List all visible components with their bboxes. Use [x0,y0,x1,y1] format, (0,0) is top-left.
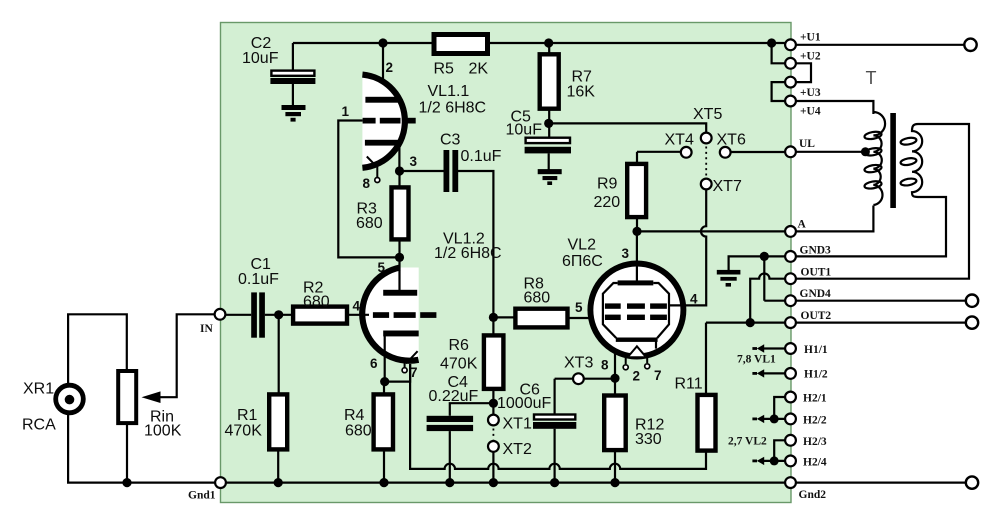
wire +U3 +U4 bracket inside [772,82,786,101]
ground below C2 [282,105,306,122]
svg-text:4: 4 [353,299,361,314]
svg-text:T: T [866,68,877,88]
terminal GND3 [785,251,796,262]
svg-text:R4: R4 [344,407,365,424]
VL1.1 grid pin 1 dashes [363,118,416,124]
VL1.2 heater stub pin 7 [402,351,418,373]
wire IN to pot wiper [159,314,215,397]
wire R8 to VL2 grid [568,317,593,319]
tube VL1.2 half triode envelope [362,268,418,361]
wire C3 right to R6 top node [458,171,494,317]
svg-text:H1/1: H1/1 [804,344,828,356]
heater arrow H1/2 [763,372,786,374]
terminal H2/1 [785,392,796,403]
terminal UL [785,146,796,157]
VL2 beam electrode outline [603,283,669,349]
terminal H2/3 [785,435,796,446]
wire +U1 external [796,44,965,46]
pot wiper arrow [142,391,161,403]
svg-text:R9: R9 [597,176,618,193]
wire top B+ bus y=43 [293,42,785,44]
svg-text:10uF: 10uF [242,50,279,67]
svg-text:1000uF: 1000uF [497,395,551,412]
wire VL1.2 cathode lead [384,335,386,382]
node 3 junction VL1.1 cathode [395,166,404,175]
wire R3 bottom [398,239,400,257]
terminal +U3 [785,77,796,88]
terminal XT7 [701,179,712,190]
node junction R1 on bus [274,478,283,487]
terminal H1/1 [785,343,796,354]
node junction top bus at +U2 branch [767,38,776,47]
svg-text:1/2 6H8C: 1/2 6H8C [419,100,487,117]
wire R11 top to OUT2 line [705,323,707,395]
wire OUT1 to secondary top [796,124,969,279]
wire node3 to C3 [400,170,444,172]
wire VL2 screen pin 4 to XT7 with hop over anode line [669,190,706,306]
wire C1 to R2 [265,314,293,316]
svg-text:4: 4 [690,292,698,307]
wire R6 leads [492,317,494,414]
wire H2/1 H2/2 bracket [763,397,786,419]
wire pot bottom lead [126,423,128,483]
wire R4 leads [383,382,385,483]
wire XR1 bottom to ground bus [68,413,215,483]
node junction R12 on bus [610,478,619,487]
VL2 cathode bar [616,338,658,342]
node junction C1/R1/R2 [274,310,283,319]
resistor R3 [356,187,409,239]
svg-text:0.22uF: 0.22uF [429,388,479,405]
svg-text:OUT2: OUT2 [801,310,832,322]
wire XT2 to bus [492,452,494,483]
svg-text:XR1: XR1 [23,381,54,398]
node junction top bus at VL1.1 [378,38,387,47]
svg-text:3: 3 [622,246,630,261]
wire ground bus [226,482,785,484]
svg-text:220: 220 [594,194,621,211]
VL1.1 cathode pin 3 [365,140,398,146]
wire R1 top lead [278,315,280,394]
wire VL2 pin8 lead [614,342,616,378]
VL1.2 anode pin 5 [383,290,417,296]
svg-text:6: 6 [370,356,378,371]
node junction pot bottom on ground bus [122,478,131,487]
VL1.2 grid pin 4 dashes [373,312,437,318]
svg-text:H2/1: H2/1 [803,393,827,405]
wire cathode node link right [385,364,410,382]
resistor R8 [515,276,567,328]
node junction VL2 anode / R9 [632,227,641,236]
wire R2 to VL1.2 grid [347,314,369,316]
node junction XT2 on bus [489,478,498,487]
wire C4 bottom lead [449,431,451,483]
wire +U4 to transformer primary [796,101,873,114]
svg-text:OUT1: OUT1 [801,267,832,279]
wire C5 bottom stem [548,153,550,169]
svg-text:VL1.1: VL1.1 [428,83,470,100]
node junction R3 bottom / VL1.2 anode [395,253,404,262]
svg-text:XT4: XT4 [665,132,694,149]
terminal GND4 [785,295,796,306]
wire GND4 external [796,300,966,302]
svg-text:VL2: VL2 [568,237,597,254]
wire VL1.2 anode lead [398,257,400,290]
svg-text:680: 680 [303,294,330,311]
svg-text:680: 680 [524,290,551,307]
wire XT4 to R9 [637,151,681,153]
VL2 cathode triangle [629,346,646,356]
VL2 grid dashes row 2 [605,315,667,320]
svg-text:IN: IN [200,323,213,335]
wire Gnd2 external [796,482,966,484]
svg-text:H2/4: H2/4 [803,457,827,469]
svg-text:2: 2 [633,369,641,384]
node junction C6 on bus [550,478,559,487]
terminal +U2 [785,58,796,69]
node junction OUT1/OUT2 [746,318,755,327]
wire UL to primary tap [796,151,865,153]
svg-text:3: 3 [410,154,418,169]
terminal XT5 [701,133,712,144]
svg-text:100K: 100K [144,423,182,440]
capacitor C1 [238,256,279,338]
terminal IN [215,309,226,320]
svg-text:GND3: GND3 [800,245,832,257]
wire VL2 anode lead pin 3 [636,231,638,281]
wire node to R8 [493,316,517,318]
svg-text:2K: 2K [469,61,489,78]
wire R11 bottom long feedback with hops [410,364,706,469]
wire node3 to R3 [398,171,400,187]
svg-text:10uF: 10uF [506,122,543,139]
svg-text:C3: C3 [440,132,461,149]
svg-text:7,8 VL1: 7,8 VL1 [737,354,776,366]
svg-text:2: 2 [386,60,394,75]
resistor R6 [440,335,503,389]
VL1.1 anode pin 2 [365,97,399,103]
resistor R12 [604,396,664,451]
wire XR1 top to potentiometer top [68,314,127,385]
svg-text:XT3: XT3 [564,355,593,372]
svg-text:5: 5 [378,260,386,275]
svg-text:2,7 VL2: 2,7 VL2 [728,435,767,447]
resistor R9 [594,164,647,217]
svg-text:R11: R11 [675,376,703,393]
VL1.2 cathode pin 6 [383,331,419,337]
terminal XT4 [681,147,692,158]
svg-text:GND4: GND4 [800,288,832,300]
svg-text:330: 330 [635,431,662,448]
capacitor C2 [242,35,315,84]
terminal A [785,226,796,237]
terminal XT6 [720,147,731,158]
terminal H2/4 [785,456,796,467]
svg-text:6П6С: 6П6С [562,253,603,270]
terminal XT3 [573,373,584,384]
svg-text:0.1uF: 0.1uF [461,148,502,165]
terminal XT1 [488,415,499,426]
wire R9 top lead [636,152,638,164]
svg-text:R5: R5 [434,61,455,78]
svg-text:8: 8 [363,176,371,191]
ground symbol near GND3 [717,270,741,287]
wire C4 top lead [450,403,494,416]
svg-text:Gnd2: Gnd2 [799,489,827,501]
wire anode line to terminal A [637,230,785,232]
svg-text:16K: 16K [567,84,596,101]
capacitor C5 [506,109,572,154]
terminal +U4 [785,96,796,107]
node junction GND3 [760,252,769,261]
wire C5 node to XT5 [549,123,707,132]
svg-text:+U2: +U2 [800,51,821,63]
terminal +U1 [785,39,796,50]
svg-text:+U4: +U4 [800,106,821,118]
svg-text:RCA: RCA [22,417,56,434]
wire VL1.1 plate lead [382,43,384,97]
wire VL1.1 grid feedback to R3 bottom [338,121,399,258]
capacitor C4 [427,374,479,431]
dotted link XT5 XT7 [705,147,707,177]
wire C2 stem [292,43,294,106]
svg-text:XT5: XT5 [693,106,722,123]
wire R9 bottom to anode node [636,215,638,231]
svg-text:680: 680 [345,423,372,440]
transformer T primary winding [864,112,885,205]
resistor R7 [540,54,596,108]
terminal OUT2 [785,317,796,328]
node junction R6 top / R8 [489,313,498,322]
wire GND3 to secondary bottom [796,197,946,256]
wire XT6 to UL terminal [731,151,786,153]
svg-text:0.1uF: 0.1uF [238,271,279,288]
node junction VL1.2 cathode [380,377,389,386]
wire H2/3 H2/4 bracket [763,440,786,461]
svg-text:H2/3: H2/3 [803,436,827,448]
external terminal +U1 [964,39,976,51]
node junction primary tap [861,147,870,156]
VL2 heater stub pin 7 [645,356,650,369]
svg-text:XT7: XT7 [713,178,742,195]
svg-text:8: 8 [601,358,609,373]
svg-text:+U3: +U3 [800,87,821,99]
wire IN to C1 [226,314,252,316]
dotted link XT1 XT2 [492,429,494,440]
svg-text:1: 1 [342,104,350,119]
wire OUT2 external [796,322,966,324]
svg-text:A: A [798,219,807,231]
wire +U2 +U3 outer bracket [796,63,811,82]
wire R7 leads [548,43,550,137]
node junction R6 bottom / C4 [489,399,498,408]
heater arrow H1/1 [763,347,786,349]
svg-text:1/2 6H8C: 1/2 6H8C [434,245,502,262]
svg-text:7: 7 [654,368,662,383]
transformer secondary winding [900,124,922,197]
resistor R11 [675,376,716,451]
terminal XT2 [488,441,499,452]
wire C6 leads [553,379,555,483]
svg-text:XT1: XT1 [503,416,532,433]
node junction top bus at R7 [544,38,553,47]
wire VL1.1 cathode lead [398,145,400,171]
potentiometer Rin body [118,371,181,440]
node junction VL2 cathode / R12 [610,374,619,383]
svg-text:R6: R6 [449,337,470,354]
terminal Gnd2 [785,477,796,488]
node junction R4 on bus [379,478,388,487]
connector XR1 RCA [22,381,83,434]
terminal Gnd1 [215,477,226,488]
terminal H2/2 [785,414,796,425]
wire XT3 link [555,378,615,380]
svg-text:470K: 470K [225,423,263,440]
svg-text:Gnd1: Gnd1 [188,490,216,502]
wire OUT1 with hop to OUT2 line [750,273,785,322]
op tube VL1.1 half triode envelope [362,75,404,168]
node junction R7 bottom / C5 [544,119,553,128]
resistor R5 [434,35,489,78]
node junction C4 on bus [445,478,454,487]
svg-text:XT2: XT2 [503,441,532,458]
capacitor C3 [440,132,502,193]
VL2 grid dashes row 1 [605,303,667,308]
tube VL2 envelope [588,262,685,359]
wire R12 leads [614,378,616,482]
VL2 heater stub pin 2 [623,357,628,370]
wire A to primary bottom [796,206,873,232]
wire OUT2 line [706,322,785,324]
svg-text:470K: 470K [440,356,478,373]
VL2 anode bar [618,280,654,285]
svg-text:H1/2: H1/2 [804,369,828,381]
resistor R2 [293,280,347,324]
svg-text:680: 680 [356,215,383,232]
svg-text:H2/2: H2/2 [803,415,827,427]
VL1.1 heater stub pin 8 [367,157,380,183]
wire +U2 branch bracket [772,43,786,63]
wire R1 bottom lead [277,449,279,482]
transformer core [890,113,896,208]
capacitor C6 [497,382,576,429]
resistor R1 [225,394,288,449]
svg-text:R1: R1 [237,407,258,424]
terminal OUT1 [785,273,796,284]
ground below C5 [538,169,562,185]
resistor R4 [344,394,393,449]
svg-text:UL: UL [799,138,815,150]
svg-text:XT6: XT6 [717,132,746,149]
board green area [221,23,792,503]
terminal H1/2 [785,368,796,379]
svg-text:5: 5 [575,300,583,315]
wire GND3 to ground and GND4 [729,256,786,300]
svg-text:+U1: +U1 [800,32,821,44]
